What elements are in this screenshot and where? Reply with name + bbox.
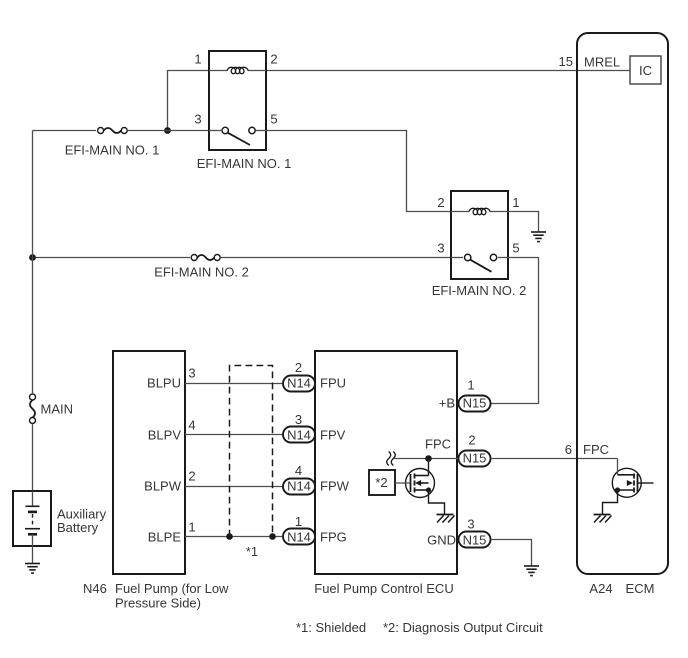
svg-text:IC: IC xyxy=(639,63,652,78)
wire BLPE to N14 xyxy=(185,536,283,538)
svg-text:BLPV: BLPV xyxy=(148,428,182,443)
svg-text:N14: N14 xyxy=(287,428,311,443)
svg-text:BLPE: BLPE xyxy=(148,530,182,545)
svg-text:Fuel Pump (for Low: Fuel Pump (for Low xyxy=(115,581,229,596)
wire battery bus to relay1 pin3 xyxy=(33,130,210,132)
svg-text:BLPW: BLPW xyxy=(144,479,182,494)
diagnosis box *2 xyxy=(369,470,395,495)
node FPC junction xyxy=(425,455,432,462)
connector N15 pin 3 (GND) xyxy=(459,516,491,547)
wire BLPV to N14 xyxy=(185,434,283,436)
shield dashed box *1 xyxy=(230,366,273,537)
svg-text:2: 2 xyxy=(188,468,195,483)
svg-text:FPG: FPG xyxy=(320,530,347,545)
svg-text:Battery: Battery xyxy=(57,520,99,535)
fuse MAIN xyxy=(30,394,36,424)
svg-text:*1: Shielded: *1: Shielded xyxy=(296,620,366,635)
svg-text:*2: *2 xyxy=(375,475,387,490)
svg-text:EFI-MAIN NO. 2: EFI-MAIN NO. 2 xyxy=(154,265,249,280)
ground (earth) at relay2 pin1 xyxy=(531,232,546,242)
svg-text:N15: N15 xyxy=(463,396,487,411)
battery Auxiliary Battery symbol xyxy=(25,491,40,564)
svg-text:N14: N14 xyxy=(287,479,311,494)
transistor MOSFET (ECU) xyxy=(406,459,445,515)
wire FPC internal xyxy=(394,458,459,460)
relay1 coil xyxy=(209,67,266,73)
svg-text:6: 6 xyxy=(565,442,572,457)
node shield left on BLPE xyxy=(226,533,233,540)
relay2 coil xyxy=(451,208,508,214)
svg-text:4: 4 xyxy=(295,463,302,478)
svg-text:N15: N15 xyxy=(463,533,487,548)
relay1 switch xyxy=(209,127,266,145)
wire *2 to gate xyxy=(395,482,410,484)
svg-text:A24: A24 xyxy=(589,581,612,596)
chassis ground at ECM MOSFET xyxy=(594,515,612,523)
svg-text:5: 5 xyxy=(512,240,519,255)
svg-text:ECM: ECM xyxy=(626,581,655,596)
wire relay2 pin1 to ground xyxy=(508,212,539,233)
svg-text:N14: N14 xyxy=(287,376,311,391)
ground (earth) at GND xyxy=(524,566,539,576)
svg-text:1: 1 xyxy=(188,519,195,534)
svg-text:3: 3 xyxy=(194,112,201,127)
svg-text:*1: *1 xyxy=(246,544,258,559)
ground (earth) under battery xyxy=(25,564,40,574)
svg-text:1: 1 xyxy=(194,52,201,67)
relay EFI-MAIN NO. 2 box xyxy=(451,191,508,279)
label N46 Fuel Pump (for Low Pressure Side) xyxy=(83,581,229,611)
relay EFI-MAIN NO. 1 box xyxy=(209,51,266,150)
svg-text:3: 3 xyxy=(295,412,302,427)
transistor MOSFET (ECM) xyxy=(603,459,654,515)
wire relay1 pin5 to relay2 pin2 xyxy=(266,131,451,212)
svg-text:MAIN: MAIN xyxy=(41,402,74,417)
svg-text:3: 3 xyxy=(188,365,195,380)
svg-text:Fuel Pump Control ECU: Fuel Pump Control ECU xyxy=(314,581,453,596)
fuse EFI-MAIN NO. 1 xyxy=(98,128,128,134)
connector N15 pin 1 (+B) xyxy=(459,378,491,412)
svg-text:EFI-MAIN NO. 1: EFI-MAIN NO. 1 xyxy=(65,143,160,158)
fuel pump control ECU box xyxy=(315,351,457,574)
svg-text:2: 2 xyxy=(270,52,277,67)
svg-text:2: 2 xyxy=(437,195,444,210)
svg-text:EFI-MAIN NO. 1: EFI-MAIN NO. 1 xyxy=(197,156,292,171)
svg-text:+B: +B xyxy=(439,396,455,411)
svg-text:3: 3 xyxy=(467,516,474,531)
node junction at fuse EFI-MAIN NO.1 output xyxy=(164,127,171,134)
svg-text:3: 3 xyxy=(437,240,444,255)
wire GND to ground xyxy=(491,540,532,567)
svg-text:1: 1 xyxy=(295,514,302,529)
svg-text:FPC: FPC xyxy=(583,442,609,457)
svg-text:2: 2 xyxy=(295,360,302,375)
svg-text:2: 2 xyxy=(468,432,475,447)
svg-text:BLPU: BLPU xyxy=(147,376,181,391)
fuse EFI-MAIN NO. 2 xyxy=(191,255,220,261)
svg-text:15: 15 xyxy=(559,54,573,69)
connector N15 pin 2 (FPC) xyxy=(459,432,491,466)
IC box xyxy=(630,56,661,84)
svg-text:EFI-MAIN NO. 2: EFI-MAIN NO. 2 xyxy=(432,283,527,298)
battery box xyxy=(13,491,51,546)
wire EFI-MAIN NO.2 line (battery bus to relay2 pin3) xyxy=(33,257,452,259)
svg-text:N14: N14 xyxy=(287,530,311,545)
svg-text:Pressure Side): Pressure Side) xyxy=(115,596,201,611)
wire BLPW to N14 xyxy=(185,486,283,488)
connector N14 pin 2 (FPU) xyxy=(283,360,315,392)
svg-text:FPV: FPV xyxy=(320,428,346,443)
wire battery bus vertical xyxy=(32,131,34,492)
chassis ground at ECU MOSFET xyxy=(437,515,455,523)
svg-text:GND: GND xyxy=(427,533,456,548)
wire MREL bus (relay1 pin2 to ECM pin15/IC) xyxy=(266,70,630,72)
node junction battery bus at EFI-MAIN NO.2 line xyxy=(29,254,36,261)
connector N14 pin 1 (FPG) xyxy=(283,514,315,545)
wire relay1 pin1 to node at fuse line xyxy=(168,71,210,131)
svg-text:FPU: FPU xyxy=(320,376,346,391)
svg-text:FPW: FPW xyxy=(320,479,350,494)
node shield right on BLPE xyxy=(269,533,276,540)
wire BLPU to N14 xyxy=(185,383,283,385)
relay2 switch xyxy=(451,254,508,271)
wire FPC to ECM xyxy=(491,458,618,460)
connector N14 pin 4 (FPW) xyxy=(283,463,315,495)
svg-text:4: 4 xyxy=(188,417,195,432)
svg-text:MREL: MREL xyxy=(584,55,620,70)
wire relay2 pin5 to ECU +B xyxy=(491,258,539,404)
svg-text:N46: N46 xyxy=(83,581,107,596)
fuel pump N46 box xyxy=(113,351,185,574)
connector N14 pin 3 (FPV) xyxy=(283,412,315,443)
svg-text:N15: N15 xyxy=(463,451,487,466)
svg-text:FPC: FPC xyxy=(425,437,451,452)
svg-text:1: 1 xyxy=(467,378,474,393)
squiggle break symbol xyxy=(387,452,396,466)
svg-text:1: 1 xyxy=(512,195,519,210)
svg-text:5: 5 xyxy=(270,112,277,127)
svg-text:*2: Diagnosis Output Circuit: *2: Diagnosis Output Circuit xyxy=(383,620,543,635)
ECM box A24 xyxy=(577,33,668,574)
